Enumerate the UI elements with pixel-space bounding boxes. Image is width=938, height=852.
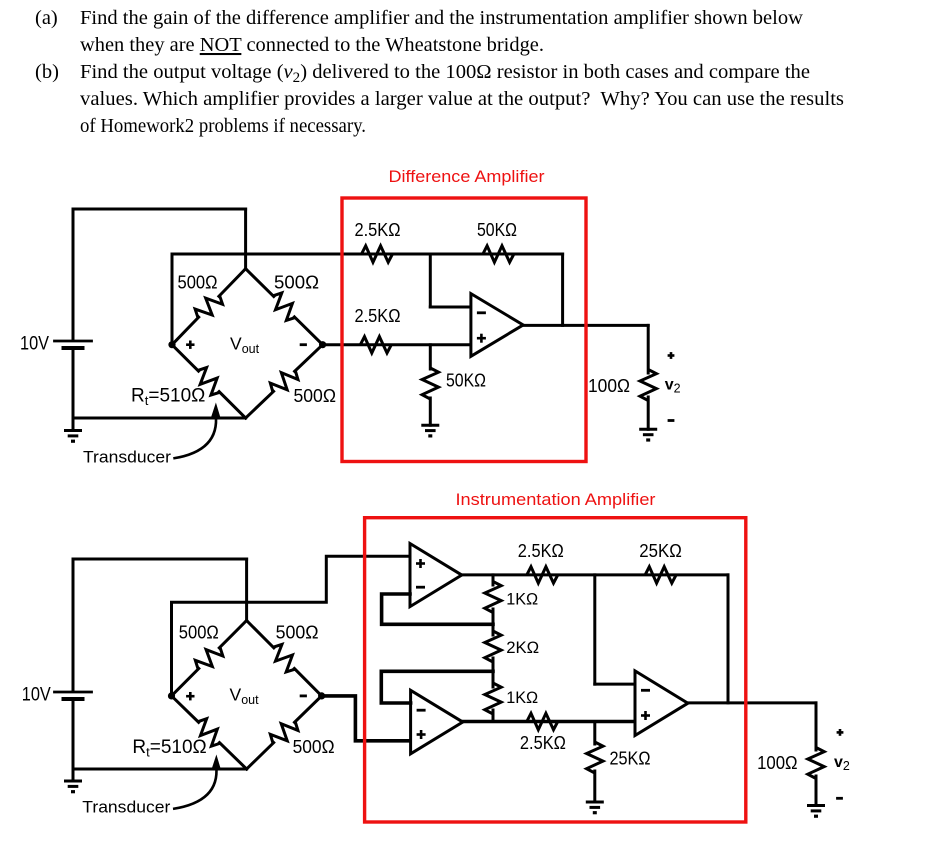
svg-text:100Ω: 100Ω [757,753,798,773]
svg-text:25KΩ: 25KΩ [639,541,682,561]
svg-text:2.5KΩ: 2.5KΩ [520,733,566,753]
svg-text:500Ω: 500Ω [276,623,319,643]
svg-text:(b): (b) [35,61,59,83]
svg-text:values. Which amplifier provid: values. Which amplifier provides a large… [80,88,844,110]
svg-text:of Homework2 problems if neces: of Homework2 problems if necessary. [80,115,366,137]
svg-text:2.5KΩ: 2.5KΩ [518,541,564,561]
svg-text:500Ω: 500Ω [293,737,335,757]
svg-text:Difference Amplifier: Difference Amplifier [389,167,545,186]
svg-text:2.5KΩ: 2.5KΩ [355,220,401,240]
svg-text:500Ω: 500Ω [294,386,337,406]
svg-text:Transducer: Transducer [82,799,171,817]
svg-text:when they are NOT connected to: when they are NOT connected to the Wheat… [80,34,544,56]
svg-text:2KΩ: 2KΩ [506,638,539,657]
svg-text:Rt=510Ω: Rt=510Ω [131,386,205,409]
svg-text:10V: 10V [22,685,51,706]
svg-text:1KΩ: 1KΩ [506,688,538,707]
svg-text:Rt=510Ω: Rt=510Ω [132,737,206,760]
svg-text:2.5KΩ: 2.5KΩ [355,306,401,326]
svg-text:500Ω: 500Ω [274,272,319,292]
svg-text:Instrumentation Amplifier: Instrumentation Amplifier [456,490,656,509]
svg-text:Find the output voltage (v2) d: Find the output voltage (v2) delivered t… [80,61,810,86]
svg-text:Transducer: Transducer [83,449,172,467]
svg-text:50KΩ: 50KΩ [446,371,486,391]
svg-text:25KΩ: 25KΩ [610,749,651,769]
svg-text:1KΩ: 1KΩ [506,590,538,609]
svg-text:Find the gain of the differenc: Find the gain of the difference amplifie… [80,7,803,29]
svg-text:500Ω: 500Ω [179,623,219,643]
svg-text:(a): (a) [35,7,58,29]
svg-text:10V: 10V [20,334,49,355]
svg-text:50KΩ: 50KΩ [477,220,517,240]
svg-text:500Ω: 500Ω [178,272,218,292]
svg-text:100Ω: 100Ω [588,376,630,396]
